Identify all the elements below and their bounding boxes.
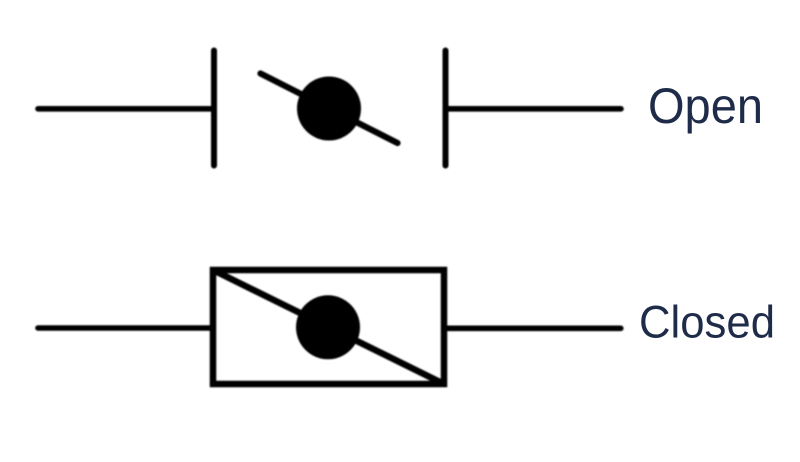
closed damper blade diagonal	[213, 270, 444, 384]
open damper blade diagonal	[261, 74, 398, 144]
wire right of open damper symbol	[446, 106, 622, 112]
wire left of open damper symbol	[38, 106, 214, 112]
svg-text:Open: Open	[648, 78, 763, 134]
wire right of closed damper symbol	[444, 325, 621, 331]
wire left of closed damper symbol	[38, 325, 213, 331]
duct wall bar right (open symbol)	[443, 51, 449, 166]
damper body rectangle (closed symbol)	[213, 270, 444, 384]
damper pivot circle (closed)	[296, 295, 360, 359]
duct wall bar left (open symbol)	[211, 51, 217, 166]
svg-text:Closed: Closed	[639, 297, 775, 348]
damper pivot circle (open)	[297, 77, 361, 141]
